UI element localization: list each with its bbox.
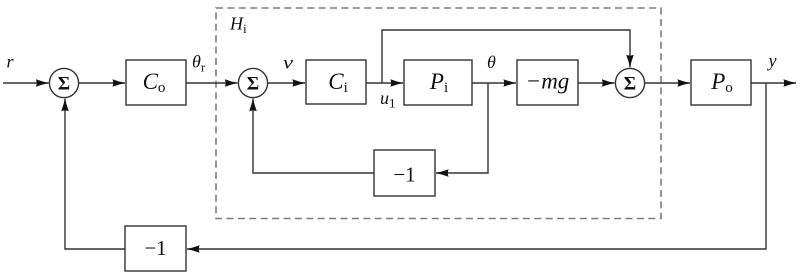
svg-text:ν: ν [283,53,293,73]
svg-text:−1: −1 [393,163,415,187]
svg-text:Σ: Σ [247,74,259,95]
svg-text:−1: −1 [144,236,166,260]
svg-text:y: y [767,51,777,71]
svg-text:Σ: Σ [624,74,636,95]
svg-text:θ: θ [487,52,496,72]
svg-text:−mg: −mg [526,69,570,94]
svg-text:Σ: Σ [58,74,70,95]
svg-text:r: r [7,52,15,72]
